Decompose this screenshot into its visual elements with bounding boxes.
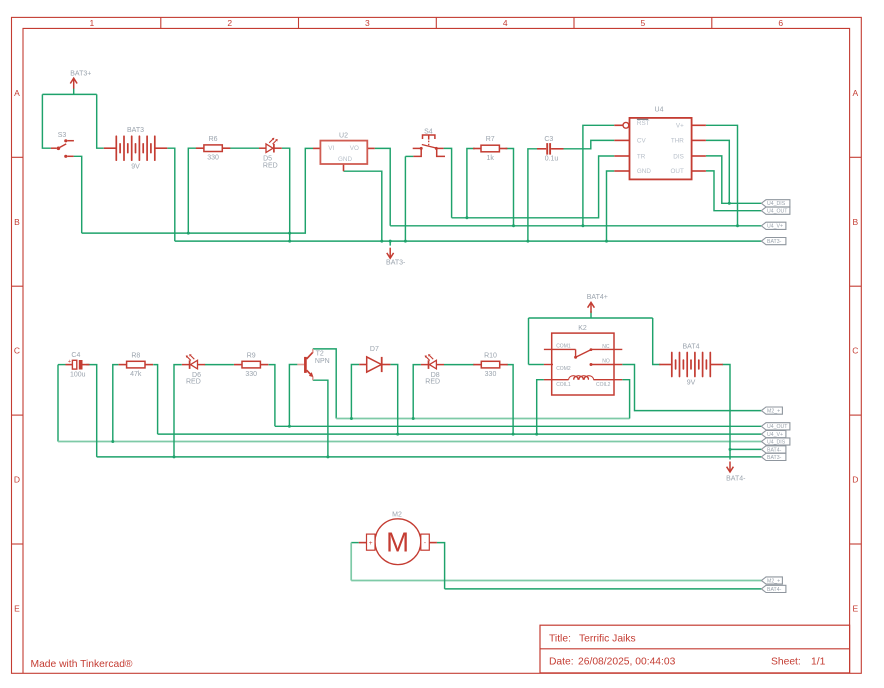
svg-text:47k: 47k	[130, 371, 142, 378]
svg-text:C3: C3	[544, 136, 553, 143]
svg-text:S3: S3	[58, 132, 67, 139]
battery BAT3 right lead	[155, 147, 168, 149]
wire S4 right down	[444, 148, 452, 217]
relay K2	[544, 333, 622, 395]
svg-text:A: A	[852, 88, 858, 98]
wire bus up to D6	[174, 365, 182, 457]
battery BAT3 cell bars	[115, 136, 117, 160]
svg-text:BAT3+: BAT3+	[70, 71, 91, 78]
LED D8 triangle	[429, 360, 436, 369]
wire U4 THR down	[706, 140, 729, 203]
svg-text:R10: R10	[484, 352, 497, 359]
svg-text:5: 5	[641, 18, 646, 28]
svg-text:BAT4-: BAT4-	[767, 587, 782, 593]
wire bus up to R7	[467, 149, 475, 218]
wire BAT3 minus down	[167, 148, 175, 241]
wire collector-coil bus	[336, 418, 629, 420]
svg-text:S4: S4	[424, 128, 433, 135]
wire D5 cathode down	[282, 148, 290, 241]
net flag U4_DIS top	[761, 200, 790, 207]
resistor R8 left lead	[119, 364, 127, 366]
net flag U4_V+ middle	[761, 431, 786, 438]
resistor R10 right lead	[500, 364, 508, 366]
wire V+ bus to U4_V+ flag	[390, 225, 761, 227]
wire rail to BAT3 plus	[97, 94, 104, 148]
wire M2 minus down	[437, 543, 445, 589]
svg-text:COM1: COM1	[556, 344, 571, 350]
resistor R6 right lead	[222, 147, 230, 149]
net flag U4_V+ top	[761, 222, 786, 229]
svg-text:COM2: COM2	[556, 366, 571, 372]
junction	[187, 232, 190, 235]
svg-text:GND: GND	[637, 168, 651, 175]
net flag U4_OUT middle	[761, 423, 790, 430]
net flag BAT4- middle	[761, 446, 786, 453]
resistor R9 right lead	[260, 364, 268, 366]
LED D5 anode lead	[259, 147, 266, 149]
svg-text:330: 330	[245, 371, 257, 378]
svg-text:V+: V+	[676, 123, 684, 130]
wire K2 NO to M2_+ flag	[622, 365, 761, 411]
junction	[396, 433, 399, 436]
wire D6 to R9	[205, 364, 234, 366]
wire C4 left down	[57, 365, 59, 442]
svg-text:U4_V+: U4_V+	[767, 432, 783, 438]
svg-text:R8: R8	[131, 352, 140, 359]
svg-text:U4_DIS: U4_DIS	[767, 439, 786, 445]
svg-text:COIL2: COIL2	[596, 382, 611, 388]
junction	[535, 433, 538, 436]
LED D5 cathode bar	[273, 144, 275, 153]
wire bus up to R6	[188, 148, 196, 233]
power flag BAT4- arrow	[729, 462, 731, 472]
battery BAT4 left lead	[659, 364, 672, 366]
junction	[288, 240, 291, 243]
LED D8 cathode bar	[428, 360, 430, 369]
wire BAT4 minus down	[722, 365, 730, 460]
wire BAT4- flag wire	[730, 448, 761, 450]
svg-text:T2: T2	[316, 350, 324, 357]
junction	[288, 425, 291, 428]
svg-text:E: E	[14, 604, 20, 614]
svg-text:U4_DIS: U4_DIS	[767, 201, 786, 207]
wire BAT3- bus middle	[97, 456, 762, 458]
svg-text:4: 4	[503, 18, 508, 28]
LED D8 anode lead	[436, 364, 444, 366]
svg-text:U4_V+: U4_V+	[767, 224, 783, 230]
svg-text:BAT3-: BAT3-	[386, 259, 406, 266]
svg-text:100u: 100u	[70, 371, 86, 378]
svg-text:C4: C4	[71, 352, 80, 359]
junction	[729, 448, 732, 451]
wire U4 OUT to flag	[706, 171, 762, 211]
svg-text:M2_+: M2_+	[767, 409, 780, 415]
net flag U4_DIS middle	[761, 438, 790, 445]
svg-text:D5: D5	[263, 155, 272, 162]
svg-text:BAT3: BAT3	[127, 127, 144, 134]
wire BAT3+ arrow stub	[73, 89, 75, 95]
wire R9 right down	[269, 365, 275, 427]
wire S4 left down	[404, 156, 406, 241]
wire M2 plus down	[350, 543, 352, 581]
svg-text:D: D	[14, 475, 20, 485]
capacitor C3	[537, 143, 564, 155]
svg-text:E: E	[852, 604, 858, 614]
svg-text:BAT4: BAT4	[683, 343, 700, 350]
resistor R6 left lead	[196, 147, 204, 149]
svg-text:K2: K2	[578, 325, 587, 332]
svg-text:2: 2	[227, 18, 232, 28]
junction	[288, 232, 291, 235]
wire U4_OUT bus middle	[275, 425, 762, 427]
power flag BAT3- arrow	[389, 248, 391, 258]
resistor R8 right lead	[145, 364, 153, 366]
wire bus up to T2 base	[289, 365, 297, 427]
svg-text:3: 3	[365, 18, 370, 28]
resistor R9 body	[242, 361, 260, 368]
net flag BAT3- top	[761, 238, 786, 245]
svg-text:U4_OUT: U4_OUT	[767, 424, 788, 430]
battery BAT3 left lead	[104, 147, 117, 149]
resistor R9 left lead	[234, 364, 242, 366]
svg-text:Made with Tinkercad®: Made with Tinkercad®	[31, 659, 133, 670]
wire BAT4- bus bottom	[445, 588, 762, 590]
resistor R10 left lead	[473, 364, 481, 366]
svg-text:B: B	[14, 217, 20, 227]
wire U2 VO down	[375, 148, 391, 225]
svg-text:A: A	[14, 88, 20, 98]
net flag BAT4- bottom	[761, 585, 786, 592]
wire R10 right down	[507, 365, 513, 435]
wire bus S3 to U2 VI	[82, 148, 313, 233]
pushbutton S4	[413, 135, 445, 156]
capacitor C4	[66, 359, 90, 370]
svg-text:26/08/2025, 00:44:03: 26/08/2025, 00:44:03	[578, 656, 676, 667]
net flag U4_OUT top	[761, 207, 790, 214]
wire T2 collector down	[313, 349, 336, 419]
wire RST to V+ bus	[583, 125, 614, 226]
wire to M2 plus	[351, 542, 359, 544]
transistor T2 NPN	[297, 349, 313, 380]
svg-text:+: +	[68, 359, 71, 365]
wire U4_V+ bus middle	[158, 433, 762, 435]
svg-text:OUT: OUT	[671, 168, 684, 175]
svg-text:M: M	[386, 527, 409, 558]
junction	[173, 455, 176, 458]
junction	[111, 440, 114, 443]
LED D6 emission arrows	[191, 356, 195, 360]
svg-text:GND: GND	[338, 156, 352, 163]
svg-text:THR: THR	[671, 137, 684, 144]
motor M2	[359, 519, 437, 565]
battery BAT4 right lead	[710, 364, 723, 366]
junction	[389, 240, 392, 243]
wire to S4 lower left	[405, 155, 413, 157]
resistor R8 body	[127, 361, 145, 368]
junction	[581, 224, 584, 227]
wire D8 to R10	[444, 364, 474, 366]
svg-text:BAT3-: BAT3-	[767, 455, 782, 461]
wire BAT3+ top rail	[42, 93, 96, 95]
svg-text:R9: R9	[247, 352, 256, 359]
svg-text:RST: RST	[637, 120, 650, 127]
wire trigger bus to U4 TR	[452, 156, 615, 218]
junction	[404, 240, 407, 243]
junction	[350, 417, 353, 420]
wire K2 COM2 up	[528, 318, 530, 365]
wire U4_DIS bus middle	[58, 441, 761, 443]
row tick marks right	[850, 156, 862, 158]
wire to C4 left	[58, 364, 66, 366]
svg-text:Sheet:: Sheet:	[771, 656, 801, 667]
title block	[540, 625, 850, 673]
wire U2 GND down	[344, 171, 382, 241]
junction	[526, 240, 529, 243]
svg-text:COIL1: COIL1	[556, 382, 571, 388]
svg-text:R7: R7	[486, 136, 495, 143]
wire T2 emitter down	[313, 380, 328, 457]
junction	[412, 417, 415, 420]
wire bus up to R8	[113, 365, 119, 442]
svg-text:RED: RED	[186, 378, 201, 385]
resistor R7 right lead	[499, 148, 507, 150]
wire bus up to D8	[413, 365, 421, 419]
svg-text:D: D	[852, 475, 858, 485]
wire BAT3- bus to flag	[175, 240, 762, 242]
net flag M2_+ middle	[761, 407, 782, 414]
svg-text:U4_OUT: U4_OUT	[767, 209, 788, 215]
svg-text:DIS: DIS	[673, 153, 684, 160]
svg-text:C: C	[14, 346, 20, 356]
resistor R7 body	[481, 145, 499, 152]
svg-text:M2_+: M2_+	[767, 578, 780, 584]
junction	[380, 240, 383, 243]
wire BAT3- arrow stub	[389, 241, 391, 246]
resistor R10 body	[481, 361, 499, 368]
junction	[326, 455, 329, 458]
junction	[736, 224, 739, 227]
svg-text:330: 330	[485, 371, 497, 378]
wire M2_+ bus bottom	[351, 580, 761, 582]
svg-text:RED: RED	[425, 378, 440, 385]
resistor R6 body	[204, 145, 222, 152]
svg-text:R6: R6	[209, 136, 218, 143]
svg-text:6: 6	[778, 18, 783, 28]
svg-text:9V: 9V	[131, 163, 140, 170]
svg-text:-: -	[424, 540, 426, 547]
wire U4 V+ down	[706, 125, 738, 226]
regulator U2	[313, 141, 375, 172]
svg-text:0.1u: 0.1u	[545, 156, 559, 163]
wire U4 GND down	[607, 171, 615, 241]
svg-text:RED: RED	[263, 163, 278, 170]
svg-text:BAT4-: BAT4-	[767, 447, 782, 453]
svg-text:NPN: NPN	[315, 358, 330, 365]
LED D6 cathode lead	[182, 364, 190, 366]
junction	[512, 224, 515, 227]
wire C3 to U4 CV	[564, 140, 615, 148]
wire rail to S3 common	[42, 94, 51, 148]
net flag M2_+ bottom	[761, 577, 782, 584]
svg-text:330: 330	[207, 155, 219, 162]
svg-text:NC: NC	[602, 344, 610, 350]
svg-text:CV: CV	[637, 137, 647, 144]
svg-text:Terrific Jaiks: Terrific Jaiks	[579, 633, 636, 644]
wire K2 COIL1 down	[537, 380, 544, 434]
wire bus up to D7	[351, 365, 359, 419]
svg-text:VI: VI	[328, 145, 334, 152]
switch S3	[51, 139, 74, 158]
LED D6 anode lead	[198, 364, 206, 366]
svg-text:1/1: 1/1	[811, 656, 826, 667]
row tick marks left	[12, 156, 24, 158]
column tick marks top	[160, 17, 162, 28]
resistor R7 left lead	[473, 148, 481, 150]
junction	[605, 240, 608, 243]
wire K2 COIL2 down	[622, 380, 629, 419]
wire BAT4+ arrow stub	[590, 311, 592, 318]
svg-text:M2: M2	[392, 511, 402, 518]
svg-text:VO: VO	[350, 145, 359, 152]
wire R8 right down	[153, 365, 157, 435]
timer U4	[614, 118, 706, 179]
diode D7	[359, 357, 390, 372]
svg-text:9V: 9V	[687, 380, 696, 387]
junction	[512, 433, 515, 436]
LED D6 cathode bar	[189, 360, 191, 369]
wire S3 throw down	[74, 156, 82, 233]
svg-text:1: 1	[90, 18, 95, 28]
wire to K2 COM2	[529, 364, 544, 366]
net flag BAT3- middle	[761, 453, 786, 460]
svg-text:B: B	[852, 217, 858, 227]
LED D8 emission arrows	[430, 356, 434, 360]
svg-text:BAT3-: BAT3-	[767, 239, 782, 245]
wire R7 right down	[506, 149, 514, 226]
battery BAT4 cell bars	[671, 353, 673, 377]
svg-text:D7: D7	[370, 346, 379, 353]
svg-text:NO: NO	[602, 359, 610, 365]
LED D8 cathode lead	[421, 364, 429, 366]
wire D7 cathode down	[390, 365, 397, 435]
wire U4 DIS to flag	[706, 156, 762, 203]
LED D5 triangle	[266, 144, 273, 153]
LED D5 emission arrows	[269, 139, 273, 143]
wire C4 right down	[86, 365, 96, 457]
svg-text:1k: 1k	[486, 155, 494, 162]
wire BAT4+ rail	[529, 317, 653, 319]
svg-text:Date:: Date:	[549, 656, 574, 667]
svg-text:Title:: Title:	[549, 633, 571, 644]
svg-text:C: C	[852, 346, 858, 356]
power flag BAT3+ arrow	[73, 79, 75, 89]
power flag BAT4+ arrow	[590, 303, 592, 313]
svg-text:TR: TR	[637, 153, 646, 160]
LED D6 triangle	[191, 360, 198, 369]
svg-text:BAT4+: BAT4+	[587, 294, 608, 301]
svg-text:BAT4-: BAT4-	[726, 476, 746, 483]
svg-text:U4: U4	[655, 106, 664, 113]
LED D5 cathode lead	[274, 147, 282, 149]
wire R6 to D5	[230, 147, 259, 149]
svg-text:U2: U2	[339, 133, 348, 140]
wire C3 left down	[528, 149, 537, 241]
junction	[465, 216, 468, 219]
junction	[728, 202, 731, 205]
wire rail to BAT4 plus	[653, 318, 661, 365]
svg-text:+: +	[369, 540, 373, 547]
